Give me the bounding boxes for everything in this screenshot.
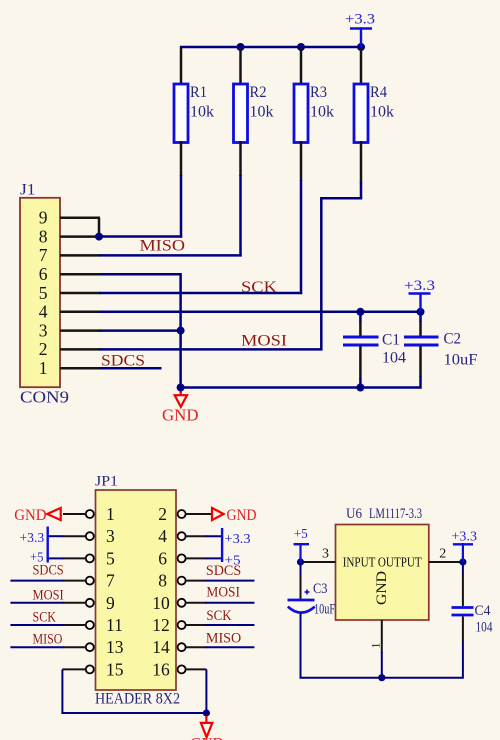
svg-text:C4: C4: [475, 603, 491, 619]
svg-text:6: 6: [158, 548, 167, 568]
svg-text:+3.3: +3.3: [20, 531, 45, 546]
svg-text:C1: C1: [382, 332, 400, 349]
svg-text:R4: R4: [370, 84, 387, 101]
svg-text:MISO: MISO: [206, 630, 241, 646]
svg-text:1: 1: [106, 504, 115, 524]
svg-text:6: 6: [39, 264, 48, 284]
svg-text:1: 1: [369, 643, 383, 649]
svg-text:10k: 10k: [250, 104, 274, 121]
svg-text:+5: +5: [294, 527, 308, 542]
svg-text:4: 4: [158, 526, 167, 546]
svg-text:3: 3: [322, 547, 329, 562]
svg-text:HEADER 8X2: HEADER 8X2: [95, 691, 180, 708]
svg-text:SCK: SCK: [33, 609, 57, 625]
svg-text:R1: R1: [190, 84, 207, 101]
svg-text:MISO: MISO: [33, 632, 63, 648]
svg-text:4: 4: [39, 302, 48, 322]
svg-text:LM1117-3.3: LM1117-3.3: [369, 506, 422, 522]
svg-text:SCK: SCK: [206, 608, 231, 624]
svg-text:10k: 10k: [310, 104, 334, 121]
svg-text:11: 11: [106, 615, 123, 635]
svg-text:+3.3: +3.3: [404, 278, 435, 294]
svg-text:10k: 10k: [370, 104, 394, 121]
svg-text:MOSI: MOSI: [206, 585, 240, 601]
svg-text:J1: J1: [20, 182, 36, 199]
svg-text:U6: U6: [346, 506, 362, 522]
svg-text:8: 8: [158, 571, 167, 591]
svg-text:15: 15: [106, 659, 124, 679]
svg-text:1: 1: [39, 358, 48, 378]
svg-text:8: 8: [39, 226, 48, 246]
svg-text:7: 7: [106, 571, 115, 591]
svg-text:R3: R3: [310, 84, 327, 101]
svg-text:10uF: 10uF: [314, 602, 335, 618]
svg-text:INPUT OUTPUT: INPUT OUTPUT: [343, 555, 423, 570]
svg-text:12: 12: [152, 615, 170, 635]
svg-text:+3.3: +3.3: [225, 532, 251, 547]
svg-text:C2: C2: [444, 331, 462, 348]
svg-text:C3: C3: [313, 581, 328, 597]
svg-text:2: 2: [158, 504, 167, 524]
svg-text:GND: GND: [162, 406, 199, 425]
svg-text:5: 5: [39, 283, 48, 303]
svg-text:MOSI: MOSI: [33, 587, 64, 603]
svg-text:16: 16: [152, 659, 170, 679]
svg-text:GND: GND: [191, 736, 224, 740]
svg-text:3: 3: [106, 526, 115, 546]
svg-text:SDCS: SDCS: [33, 562, 64, 578]
svg-text:3: 3: [39, 320, 48, 340]
svg-text:MISO: MISO: [140, 238, 186, 255]
svg-text:SDCS: SDCS: [101, 353, 145, 370]
svg-text:104: 104: [382, 350, 406, 367]
svg-text:104: 104: [476, 620, 493, 636]
svg-text:MOSI: MOSI: [241, 333, 287, 350]
svg-text:SCK: SCK: [241, 279, 278, 296]
svg-text:GND: GND: [227, 507, 257, 524]
svg-text:GND: GND: [374, 571, 390, 605]
svg-text:2: 2: [39, 339, 48, 359]
svg-text:JP1: JP1: [95, 474, 118, 490]
svg-text:SDCS: SDCS: [206, 563, 241, 579]
svg-text:7: 7: [39, 245, 48, 265]
svg-text:10k: 10k: [190, 104, 214, 121]
svg-text:5: 5: [106, 548, 115, 568]
svg-text:GND: GND: [14, 507, 46, 524]
svg-text:R2: R2: [250, 84, 267, 101]
svg-text:2: 2: [439, 547, 446, 562]
svg-text:14: 14: [152, 637, 170, 657]
svg-text:+3.3: +3.3: [345, 12, 375, 28]
svg-text:10uF: 10uF: [444, 352, 478, 369]
svg-text:10: 10: [152, 593, 170, 613]
svg-text:CON9: CON9: [20, 388, 69, 407]
svg-text:+3.3: +3.3: [452, 530, 478, 545]
svg-text:13: 13: [106, 637, 124, 657]
svg-text:9: 9: [39, 208, 48, 228]
svg-text:9: 9: [106, 593, 115, 613]
